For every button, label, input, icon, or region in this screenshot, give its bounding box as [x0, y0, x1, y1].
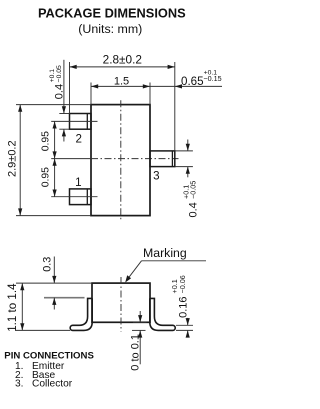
side view centerline — [120, 277, 122, 332]
package body (top view) — [91, 105, 150, 216]
right lead (side view) — [150, 298, 175, 330]
svg-text:PACKAGE DIMENSIONS: PACKAGE DIMENSIONS — [38, 5, 186, 20]
svg-text:0.95: 0.95 — [41, 167, 52, 187]
svg-text:2: 2 — [75, 132, 81, 145]
vertical centerline — [120, 100, 122, 221]
svg-text:+0.1: +0.1 — [49, 69, 56, 83]
dim 1.1 to 1.4 — [6, 283, 24, 332]
svg-text:−0.05: −0.05 — [188, 181, 197, 199]
svg-text:1.1 to 1.4: 1.1 to 1.4 — [6, 283, 19, 332]
svg-text:0.95: 0.95 — [41, 131, 52, 151]
svg-text:0 to 0.1: 0 to 0.1 — [129, 334, 141, 371]
dim 0.4 +0.1/-0.05 (pin 3, right) — [175, 140, 200, 218]
svg-text:(Units: mm): (Units: mm) — [78, 22, 142, 36]
seating plane extension line — [16, 329, 70, 331]
svg-text:0.4: 0.4 — [188, 202, 200, 217]
pin 1 (top view) — [70, 189, 92, 205]
dim 0.95 (lower) — [41, 159, 57, 197]
dim 0.3 — [42, 257, 57, 310]
dim 1.5 — [91, 75, 222, 104]
pin 2 (top view) — [70, 114, 92, 130]
svg-text:−0.15: −0.15 — [203, 74, 221, 83]
svg-text:3: 3 — [153, 169, 159, 182]
dim 0.4 +0.1/-0.05 (pin 2, left) — [49, 60, 69, 142]
svg-text:Marking: Marking — [143, 246, 187, 260]
dim 0.65 +0.1/-0.15 — [175, 69, 222, 88]
pin 1 center extension line — [51, 196, 97, 198]
svg-text:Collector: Collector — [32, 379, 73, 390]
svg-text:−0.06: −0.06 — [178, 275, 187, 293]
left lead (side view) — [70, 298, 92, 330]
dim 0 to 0.1 — [129, 311, 146, 371]
svg-text:PIN CONNECTIONS: PIN CONNECTIONS — [4, 350, 94, 361]
svg-text:0.3: 0.3 — [42, 257, 54, 272]
dim 0.16 +0.1/-0.06 — [170, 275, 193, 337]
side view package body — [92, 283, 150, 322]
svg-text:0.65: 0.65 — [181, 75, 204, 88]
top surface extension line — [16, 282, 92, 284]
horizontal centerline — [51, 158, 91, 160]
marking line (gray) — [44, 297, 85, 299]
svg-text:0.4: 0.4 — [53, 84, 65, 99]
dim 0.95 (upper) — [41, 121, 57, 158]
svg-text:2.8±0.2: 2.8±0.2 — [103, 53, 142, 67]
Marking label and leader — [125, 246, 206, 283]
svg-text:2.9±0.2: 2.9±0.2 — [6, 140, 18, 177]
svg-text:−0.05: −0.05 — [56, 65, 63, 82]
dim 2.8±0.2 — [70, 53, 175, 151]
pin 2 center extension line — [51, 120, 97, 122]
svg-text:0.16: 0.16 — [178, 296, 190, 317]
pin 3 (top view) — [150, 151, 175, 167]
svg-text:3.: 3. — [15, 379, 24, 390]
svg-text:1.5: 1.5 — [114, 75, 129, 87]
dim 2.9±0.2 — [6, 105, 91, 216]
svg-text:1: 1 — [75, 176, 81, 189]
